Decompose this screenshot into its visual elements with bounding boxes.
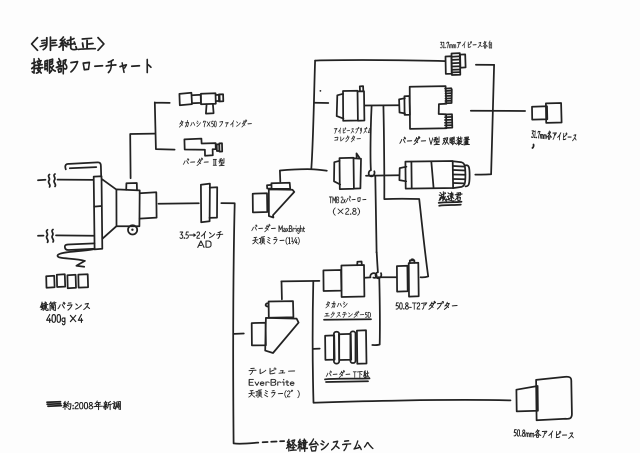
wire telescope top to finder bracket <box>130 134 155 179</box>
TeleVue EverBrite diagonal <box>252 301 299 353</box>
rail from W1 down to bottom right <box>313 281 511 402</box>
label Baader II: バーダー Ⅱ型 <box>183 158 224 166</box>
title line 2: 接眼部フローチャート <box>31 58 151 74</box>
label everbrite line3: 天頂ミラー(2″) <box>249 390 300 398</box>
label 31.7 eyepiece top: 31.7mmアイピース各自 <box>440 41 492 49</box>
junction vertical down to mount note <box>233 203 258 443</box>
wire telescope to AD <box>159 202 199 205</box>
3.5 to 2 inch adapter AD <box>201 184 217 223</box>
cross wire MaxBright to TMB <box>280 169 327 171</box>
Baader T gehta <box>325 330 366 364</box>
finder scope 7x50 <box>179 93 223 114</box>
label collector line2: コレクター <box>335 135 361 142</box>
stub rail to gehta <box>314 348 320 350</box>
label 3.5-2inch line1: 3.5→2インチ <box>180 231 223 239</box>
ink dot <box>320 90 322 92</box>
label 31.7 each eyepiece: 31.7mm各アイピース <box>531 129 577 142</box>
label 3.5-2inch line2: AD <box>197 241 211 248</box>
telescope tube lower edge with break marks <box>38 230 94 243</box>
underline gehta label <box>325 378 370 382</box>
top rail wire <box>315 60 445 61</box>
legend line marks <box>47 402 62 407</box>
focuser drawtube <box>140 192 157 218</box>
50.8-T2 adapter <box>397 259 419 296</box>
label finder scope: タカハシ 7×50 ファインダー <box>179 120 251 128</box>
telescope focuser body <box>116 189 139 226</box>
binoviewer Baader V <box>399 86 452 129</box>
telescope rear plate <box>94 176 103 249</box>
label gehta: バーダー T下駄 <box>326 370 369 378</box>
stub junction to EverBrite flange <box>234 333 244 335</box>
long vertical V1 with hops <box>369 106 382 345</box>
label reducer: 減速君 <box>439 192 462 202</box>
underline scribbles for reducer label <box>439 202 462 206</box>
label everbrite line2: EverBrite <box>249 379 294 385</box>
label weights line2: 400g ×4 <box>46 314 83 325</box>
telescope top bracket <box>65 162 101 176</box>
dashed link to mount system <box>263 441 285 442</box>
underline extender label <box>324 318 371 321</box>
31.7mm eyepiece top <box>446 53 466 75</box>
label collector line1: アイピースプリズム <box>334 127 371 134</box>
left spine vertical <box>311 61 315 169</box>
label 50.8 eyepiece: 50.8mm各アイピース <box>514 428 574 439</box>
label TMB line2: (×2.8) <box>333 208 360 216</box>
wire top eyepiece to right rail <box>476 64 494 66</box>
wire down W1 to EverBrite top <box>281 282 283 300</box>
label MaxBright line1: バーダー MaxBright <box>252 224 305 234</box>
legend text: 約:2008年新調 <box>63 401 121 410</box>
balance weights <box>46 274 88 288</box>
focus knob circle <box>128 225 137 234</box>
wire down from cross wire to MaxBright cap <box>279 171 281 182</box>
stub spine to collector <box>315 102 329 104</box>
wire collector to binoviewer <box>365 104 399 106</box>
reducer body <box>399 161 469 189</box>
label MaxBright line2: 天頂ミラー(1¼) <box>253 236 300 244</box>
label 50.8-T2 adapter: 50.8-T2アダプター <box>396 301 457 310</box>
focuser top knob <box>126 183 137 190</box>
label extender line1: タカハシ <box>326 301 348 308</box>
wire AD to junction <box>221 202 234 204</box>
vertical V2 to 50.8-T2 adapter <box>383 105 428 277</box>
label to mount system: 経緯台システムへ <box>286 439 373 452</box>
31.7mm each eyepiece <box>532 103 562 148</box>
label binoviewer: バーダー V型 双眼装置 <box>400 136 470 145</box>
Baader II finder base <box>184 139 222 156</box>
Takahashi extender <box>323 262 364 298</box>
wire extender to 50.8-T2 with hop <box>365 273 397 278</box>
wire TMB to reducer <box>366 174 399 177</box>
curved arrow to balance weights <box>58 249 94 266</box>
wire to 31.7 each eyepiece <box>471 110 525 112</box>
label TMB line1: TMB 2xバーロー <box>329 196 366 203</box>
label everbrite line1: テレビュー <box>249 368 295 375</box>
eyepiece prism collector <box>337 86 365 121</box>
wire W1 takahashi extender <box>281 280 319 283</box>
title line 1: 〈非純正〉 <box>31 37 104 51</box>
TMB 2x barlow <box>334 153 361 189</box>
telescope bottom bracket <box>65 243 95 250</box>
50.8mm eyepiece bottom right <box>516 377 572 421</box>
Baader MaxBright diagonal <box>253 183 295 218</box>
finder bracket rail <box>155 102 175 149</box>
label weights line1: 鏡筒バランス <box>40 302 90 311</box>
label extender line2: エクステンダー5D <box>324 311 370 318</box>
telescope focuser cone <box>102 179 116 239</box>
right rail vertical <box>475 65 494 175</box>
telescope tube upper edge with break marks <box>38 174 94 187</box>
